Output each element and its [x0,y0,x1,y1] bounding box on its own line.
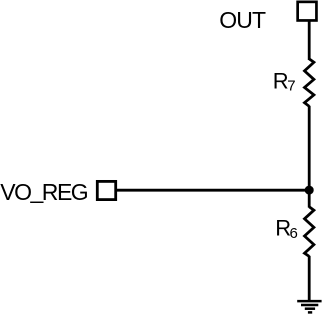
wire from R6 to ground [308,256,311,301]
wire from VO_REG terminal to junction [117,189,310,192]
svg-text:R7: R7 [273,68,296,94]
terminal VO_REG [97,181,115,199]
resistor R6 [305,207,314,257]
terminal OUT [298,2,317,21]
wire from OUT terminal to R7 [308,20,311,60]
ground [297,301,321,312]
svg-text:R6: R6 [275,216,298,242]
wire from junction to R6 [308,190,311,207]
node junction [305,186,314,195]
resistor R7 [305,59,314,106]
svg-text:VO_REG: VO_REG [0,178,89,206]
svg-text:OUT: OUT [219,7,266,33]
wire from R7 to junction [308,106,311,190]
